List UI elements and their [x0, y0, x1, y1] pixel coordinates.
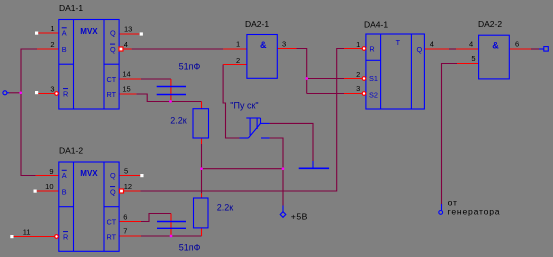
svg-text:MVX: MVX — [80, 169, 98, 178]
svg-text:DA4-1: DA4-1 — [364, 20, 388, 30]
svg-text:5: 5 — [471, 54, 475, 63]
svg-text:R: R — [63, 232, 68, 241]
svg-text:DA2-2: DA2-2 — [478, 19, 502, 29]
svg-text:3: 3 — [282, 40, 286, 49]
svg-text:+5В: +5В — [291, 212, 308, 222]
svg-text:Q: Q — [417, 45, 423, 54]
svg-text:12: 12 — [124, 182, 132, 191]
svg-text:&: & — [260, 40, 267, 50]
svg-text:6: 6 — [515, 39, 519, 48]
svg-text:R: R — [63, 89, 68, 98]
svg-text:DA1-2: DA1-2 — [59, 146, 83, 156]
svg-text:51пФ: 51пФ — [179, 243, 201, 253]
svg-text:2: 2 — [50, 40, 54, 49]
svg-text:1: 1 — [356, 40, 360, 49]
svg-text:RT: RT — [107, 90, 117, 99]
svg-text:Q: Q — [110, 29, 116, 38]
svg-text:T: T — [396, 38, 401, 47]
svg-text:4: 4 — [430, 39, 434, 48]
svg-text:DA1-1: DA1-1 — [59, 3, 83, 13]
svg-text:1: 1 — [236, 40, 240, 49]
svg-text:B: B — [62, 187, 67, 196]
svg-text:A: A — [62, 29, 67, 38]
svg-text:3: 3 — [50, 85, 54, 94]
svg-text:51пФ: 51пФ — [179, 62, 201, 72]
svg-text:&: & — [492, 41, 499, 51]
svg-text:11: 11 — [23, 228, 31, 237]
svg-text:"Пу ск": "Пу ск" — [230, 101, 258, 111]
svg-text:CT: CT — [107, 75, 117, 84]
svg-text:9: 9 — [49, 167, 53, 176]
svg-text:6: 6 — [123, 213, 127, 222]
svg-text:DA2-1: DA2-1 — [245, 19, 269, 29]
svg-text:S1: S1 — [369, 74, 378, 83]
svg-text:3: 3 — [356, 84, 360, 93]
svg-text:2.2к: 2.2к — [217, 202, 234, 212]
svg-text:5: 5 — [124, 167, 128, 176]
svg-text:2.2к: 2.2к — [170, 115, 187, 125]
svg-text:7: 7 — [123, 227, 127, 236]
svg-text:2: 2 — [236, 56, 240, 65]
svg-text:Q: Q — [110, 187, 116, 196]
svg-text:CT: CT — [107, 217, 117, 226]
svg-text:15: 15 — [122, 85, 130, 94]
svg-text:2: 2 — [356, 70, 360, 79]
svg-text:13: 13 — [124, 25, 132, 34]
svg-text:S2: S2 — [369, 90, 378, 99]
svg-text:14: 14 — [122, 70, 130, 79]
svg-text:генератора: генератора — [448, 206, 501, 216]
svg-text:B: B — [62, 45, 67, 54]
svg-text:A: A — [62, 171, 67, 180]
svg-text:R: R — [369, 44, 374, 53]
svg-text:4: 4 — [469, 39, 473, 48]
svg-text:MVX: MVX — [80, 27, 98, 36]
svg-text:Q: Q — [110, 45, 116, 54]
svg-text:Q: Q — [110, 171, 116, 180]
svg-text:1: 1 — [50, 24, 54, 33]
svg-text:RT: RT — [107, 232, 117, 241]
svg-text:4: 4 — [124, 40, 128, 49]
svg-text:10: 10 — [45, 182, 53, 191]
